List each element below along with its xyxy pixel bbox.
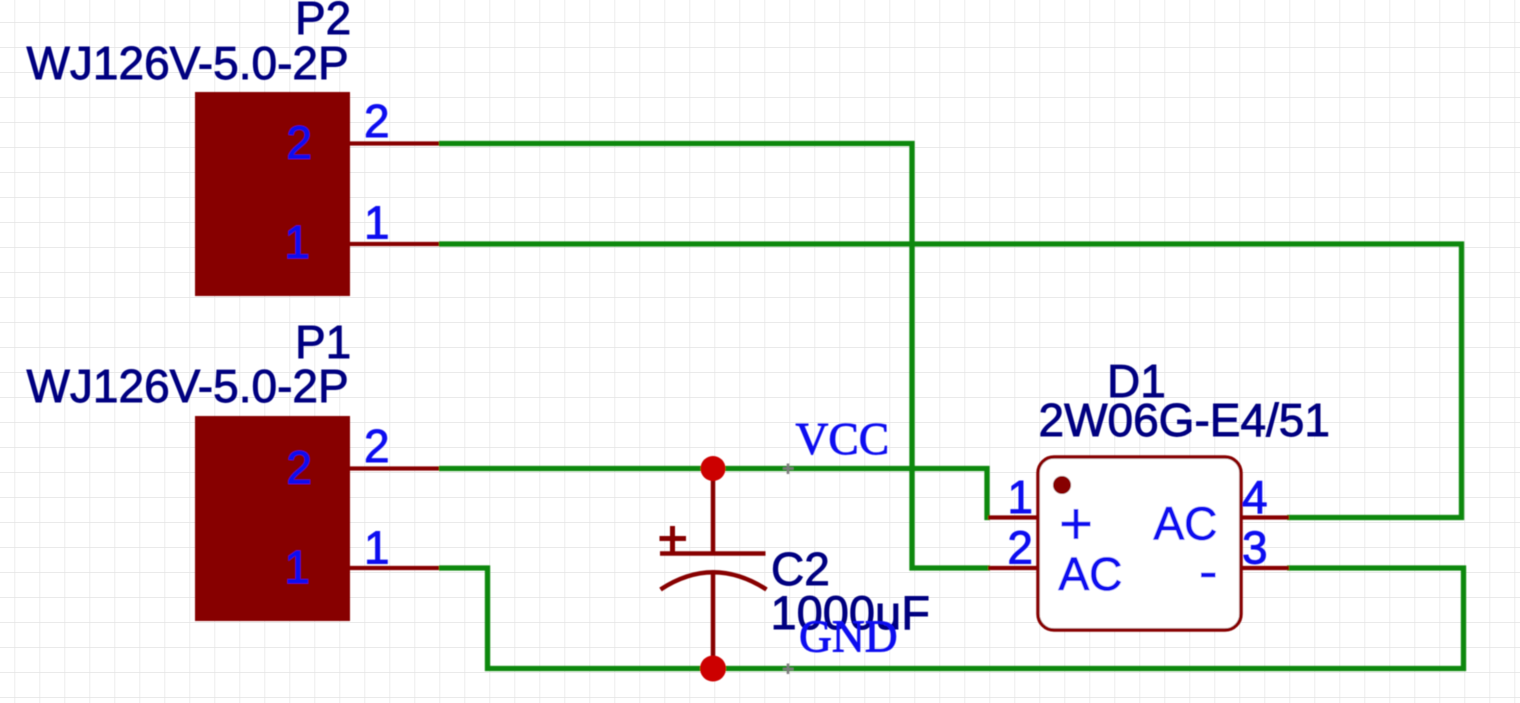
svg-text:2: 2 bbox=[364, 95, 390, 147]
svg-text:AC: AC bbox=[1154, 498, 1218, 550]
svg-text:1: 1 bbox=[1007, 471, 1033, 523]
P2 pin 2 stub bbox=[350, 141, 439, 145]
D1 polarity dot bbox=[1053, 476, 1071, 494]
P1 pin 1 stub bbox=[350, 566, 439, 570]
D1 pin name minus bbox=[1201, 573, 1216, 578]
capacitor C2 bottom lead bbox=[711, 571, 716, 668]
svg-text:1: 1 bbox=[284, 541, 310, 593]
wire net GND: P1 pin1 to C2 minus to D1 pin3 bbox=[439, 568, 1464, 669]
bridge rectifier D1 body bbox=[1038, 457, 1241, 630]
svg-text:2: 2 bbox=[286, 442, 312, 494]
junction dot GND at C2 bottom bbox=[700, 656, 726, 682]
svg-text:WJ126V-5.0-2P: WJ126V-5.0-2P bbox=[27, 37, 349, 89]
P2 pin 1 stub bbox=[350, 242, 439, 246]
svg-text:1: 1 bbox=[284, 216, 310, 268]
D1 pin 3 stub bbox=[1241, 566, 1289, 570]
svg-text:2: 2 bbox=[1007, 522, 1033, 574]
D1 pin 1 stub bbox=[988, 515, 1038, 519]
svg-text:3: 3 bbox=[1242, 522, 1268, 574]
capacitor C2 positive plate bbox=[660, 551, 766, 556]
capacitor C2 plus sign bbox=[660, 526, 687, 552]
connector P1 body bbox=[195, 416, 350, 621]
svg-text:AC: AC bbox=[1059, 548, 1123, 600]
wire net N1: P2 pin1 to D1 pin4 bbox=[439, 244, 1462, 518]
P1 pin 2 stub bbox=[350, 466, 439, 470]
svg-text:VCC: VCC bbox=[796, 413, 890, 464]
D1 pin 2 stub bbox=[988, 566, 1038, 570]
D1 pin name plus bbox=[1062, 509, 1091, 539]
svg-text:2: 2 bbox=[364, 420, 390, 472]
capacitor C2 top lead bbox=[711, 468, 716, 552]
svg-text:2: 2 bbox=[286, 117, 312, 169]
net label GND anchor cross bbox=[783, 664, 794, 675]
net label VCC anchor cross bbox=[783, 464, 794, 475]
junction dot VCC at C2 top bbox=[701, 456, 726, 481]
wire net VCC: P1 pin2 to C2 plus to D1 pin1 bbox=[439, 469, 990, 518]
svg-text:4: 4 bbox=[1242, 471, 1268, 523]
D1 pin 4 stub bbox=[1241, 515, 1289, 519]
svg-text:1: 1 bbox=[364, 522, 390, 574]
wire net N2: P2 pin2 to D1 pin2 bbox=[439, 144, 990, 569]
svg-text:WJ126V-5.0-2P: WJ126V-5.0-2P bbox=[27, 360, 349, 412]
capacitor C2 curved negative plate bbox=[661, 572, 767, 589]
svg-text:GND: GND bbox=[799, 611, 898, 662]
connector P2 body bbox=[195, 92, 350, 296]
svg-text:1: 1 bbox=[364, 197, 390, 249]
svg-text:2W06G-E4/51: 2W06G-E4/51 bbox=[1039, 394, 1330, 446]
